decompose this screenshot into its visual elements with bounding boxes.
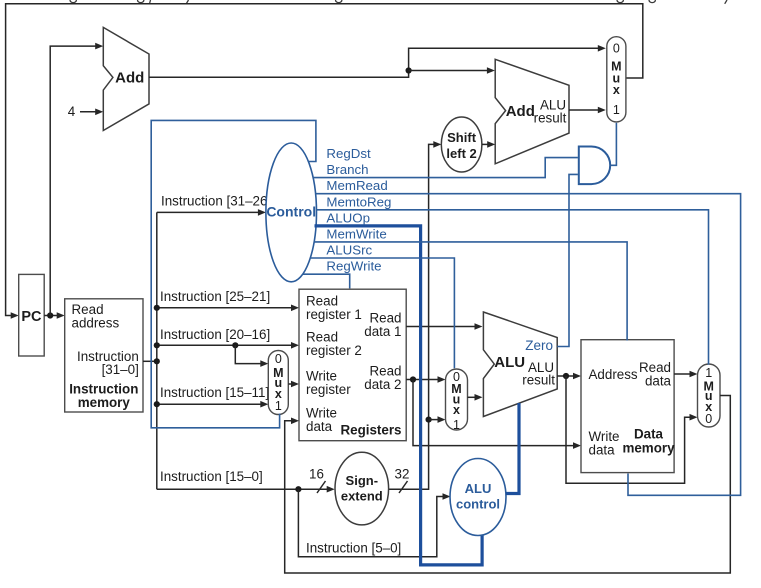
svg-text:1: 1	[275, 399, 282, 413]
junction read data 2	[410, 376, 416, 382]
wire PC-out to instruction memory	[44, 315, 62, 317]
mux MemtoReg (right)	[698, 364, 721, 427]
svg-text:Data: Data	[634, 427, 664, 442]
svg-text:Address: Address	[589, 367, 638, 382]
wire MemRead (control to data memory)	[316, 194, 741, 496]
svg-text:1: 1	[705, 366, 712, 380]
ALU main	[483, 312, 557, 417]
mux branch/PC+4 (top right)	[607, 37, 626, 122]
register file Registers	[299, 289, 406, 441]
svg-text:Registers: Registers	[340, 423, 401, 438]
oval Sign-extend	[335, 452, 389, 525]
svg-text:32: 32	[395, 467, 410, 482]
svg-text:PC: PC	[21, 309, 42, 325]
oval Control	[266, 143, 317, 282]
junction sign-extend branch	[426, 417, 432, 423]
junction PC+4	[406, 67, 412, 73]
wire ALUSrc (control to ALUSrc mux select)	[310, 258, 454, 368]
memory Instruction memory	[65, 299, 143, 412]
wire MemtoReg (control to right mux select)	[317, 210, 709, 365]
svg-text:ALUOp: ALUOp	[326, 210, 370, 225]
svg-text:1: 1	[613, 103, 620, 117]
mux RegDst (write register select)	[268, 351, 288, 415]
wire branch adder output to mux 1	[569, 109, 603, 111]
svg-text:MemtoReg: MemtoReg	[326, 194, 391, 209]
svg-text:[31–0]: [31–0]	[102, 362, 139, 377]
svg-text:left 2: left 2	[446, 146, 476, 161]
wire Instruction [31-26] to Control	[157, 211, 263, 213]
svg-text:Control: Control	[266, 204, 316, 220]
svg-text:Instruction [15–11]: Instruction [15–11]	[160, 385, 269, 400]
svg-text:Instruction [5–0]: Instruction [5–0]	[306, 541, 401, 556]
wire Instruction [20-16]	[157, 344, 297, 346]
svg-text:result: result	[534, 111, 567, 126]
junction instr 15-0	[295, 486, 301, 492]
svg-text:MemRead: MemRead	[326, 178, 387, 193]
svg-text:data 2: data 2	[364, 377, 401, 392]
wire PC-feedback (mux output to PC input)	[6, 4, 643, 316]
svg-text:x: x	[613, 83, 620, 97]
svg-text:register: register	[306, 382, 351, 397]
svg-text:Add: Add	[115, 69, 144, 86]
wire Read data 2 to mux	[406, 379, 443, 381]
adder Add (branch target)	[495, 59, 569, 164]
bus width 16 slash	[317, 481, 326, 493]
svg-text:register 2: register 2	[306, 343, 362, 358]
wire PC-out up to Add	[50, 46, 100, 315]
bus width 32 slash	[399, 481, 408, 493]
wire AND output to branch mux select	[610, 123, 616, 166]
svg-text:data: data	[645, 374, 672, 389]
svg-text:memory: memory	[78, 395, 131, 410]
wire Data memory read data to right mux 1	[674, 373, 695, 375]
wire 4 to Add	[80, 111, 99, 113]
svg-text:ALUSrc: ALUSrc	[326, 243, 372, 258]
wire Instruction [15-11]	[157, 403, 266, 405]
wire instruction out	[143, 360, 157, 362]
junction instruction/31-0	[154, 358, 160, 364]
svg-text:4: 4	[68, 104, 76, 119]
memory Data memory	[581, 340, 675, 473]
wire ALU result to Data memory address	[557, 375, 578, 377]
svg-text:ALU: ALU	[465, 481, 492, 496]
wire immediate to mux 1	[429, 419, 443, 421]
node instruction bus vertical	[156, 212, 158, 489]
svg-text:data: data	[589, 443, 616, 458]
wire Read data 2 to Data memory write data	[413, 380, 578, 446]
svg-text:result: result	[522, 373, 555, 388]
wire sign-extend output / up to shift left 2	[389, 144, 439, 489]
svg-text:16: 16	[309, 467, 324, 482]
svg-text:0: 0	[705, 412, 712, 426]
junction instr 20-16	[154, 342, 160, 348]
svg-text:extend: extend	[341, 489, 383, 504]
svg-text:0: 0	[275, 352, 282, 366]
gate AND (branch)	[579, 147, 610, 185]
register PC	[19, 274, 45, 356]
wire mux RegDst out to Write register	[288, 383, 296, 385]
svg-text:data: data	[306, 419, 333, 434]
junction ALU result	[563, 373, 569, 379]
svg-text:Instruction [20–16]: Instruction [20–16]	[160, 327, 270, 342]
svg-text:control: control	[456, 497, 500, 512]
junction PC-out	[47, 312, 53, 318]
wire Instruction [15-0] to sign extend	[157, 488, 332, 490]
svg-text:memory: memory	[622, 441, 675, 456]
svg-text:register 1: register 1	[306, 307, 362, 322]
adder Add (PC+4)	[103, 27, 149, 130]
svg-text:MemWrite: MemWrite	[326, 226, 386, 241]
wire Instruction [5-0] to ALU control	[298, 489, 448, 557]
wire PC+4 to branch adder	[409, 70, 493, 72]
svg-text:Add: Add	[506, 103, 535, 120]
svg-text:x: x	[453, 403, 460, 417]
svg-text:Sign-: Sign-	[346, 473, 379, 488]
wire Zero (ALU to AND gate)	[557, 174, 578, 346]
wire ALUOp (control to ALU control, thick)	[315, 226, 483, 565]
wire 20-16 to mux0	[235, 345, 265, 363]
junction 20-16 branch	[232, 342, 238, 348]
mux ALUSrc	[446, 369, 468, 432]
wire Read data 1 to ALU	[406, 326, 480, 328]
svg-text:Instruction [15–0]: Instruction [15–0]	[160, 469, 263, 484]
wire ALU control output to ALU (thick)	[506, 403, 519, 494]
wire RegWrite (control to registers)	[303, 274, 350, 288]
svg-text:ALU: ALU	[494, 354, 525, 371]
svg-text:RegDst: RegDst	[326, 146, 371, 161]
wire shift left 2 to branch adder	[482, 143, 493, 145]
junction instr 25-21	[154, 305, 160, 311]
wire Instruction [25-21]	[157, 307, 297, 309]
svg-text:Instruction [25–21]: Instruction [25–21]	[160, 289, 270, 304]
svg-text:1: 1	[453, 418, 460, 432]
junction instr 15-11	[154, 401, 160, 407]
svg-text:0: 0	[613, 42, 620, 56]
wire RegDst (control to write-register mux select)	[151, 120, 316, 427]
svg-text:Zero: Zero	[525, 338, 553, 353]
oval Shift left 2	[441, 117, 482, 172]
wire Add output (PC+4) to mux 0	[149, 48, 603, 77]
wire MemWrite (control to data memory)	[314, 242, 627, 341]
wire write-back to registers	[285, 396, 731, 574]
svg-text:Branch: Branch	[326, 162, 368, 177]
wire ALU result bypass to right mux 0	[566, 376, 695, 483]
svg-text:Shift: Shift	[447, 130, 477, 145]
svg-text:data 1: data 1	[364, 324, 401, 339]
oval ALU control	[450, 459, 506, 536]
wire Branch (control to AND gate)	[313, 158, 578, 178]
cropped text descenders at top edge	[70, 0, 727, 4]
svg-text:Instruction [31–26]: Instruction [31–26]	[161, 194, 271, 209]
svg-text:address: address	[72, 316, 120, 331]
wire ALUSrc mux out to ALU	[468, 396, 480, 398]
svg-text:RegWrite: RegWrite	[326, 259, 381, 274]
